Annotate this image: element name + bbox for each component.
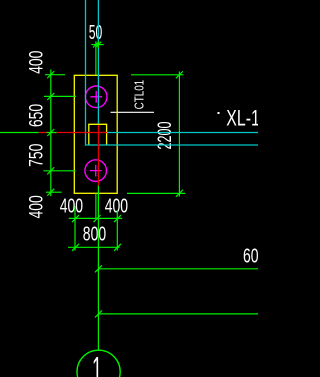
wire: cyan axis upper vertical	[97, 0, 99, 124]
wire: red axis vertical segment	[97, 125, 99, 186]
tick marks left chain	[47, 71, 54, 78]
lower dimension closing line	[68, 244, 121, 251]
extension line at pier top	[45, 74, 65, 76]
svg-text:XL-1: XL-1	[226, 105, 258, 130]
svg-text:1: 1	[92, 349, 102, 377]
anchor bolt circle bottom (magenta)	[85, 160, 107, 182]
leader line under CTL01	[111, 111, 155, 113]
bottom dimension row 400|400	[75, 193, 117, 250]
ticks 2200	[176, 71, 183, 78]
wire: red beam centerline horizontal	[39, 132, 107, 134]
bolt cross top	[90, 91, 102, 103]
dim text 650 (vertical)	[27, 104, 48, 127]
dim text 400 (top, vertical)	[27, 51, 48, 74]
left dimension chain line	[0, 70, 76, 197]
svg-text:400: 400	[60, 196, 83, 218]
dimension 50 line	[91, 41, 103, 75]
bolt cross bottom	[90, 165, 102, 177]
dim text 2200 (vertical)	[155, 122, 176, 150]
axis bubble	[77, 350, 120, 377]
label CTL01 (vertical)	[132, 80, 146, 110]
dim text 400 (bottom, vertical)	[27, 195, 48, 218]
right dimension 2200	[127, 71, 185, 197]
wire: cyan horizontal beam line right	[107, 132, 258, 134]
svg-text:750: 750	[27, 144, 48, 167]
extension at pier top right	[131, 74, 184, 76]
wire: green axis line lower (to bubble)	[97, 186, 99, 351]
pier outline (yellow rectangle)	[74, 75, 117, 193]
extension at pier bottom right	[127, 192, 185, 194]
svg-text:800: 800	[83, 223, 106, 245]
anchor bolt circle top (magenta)	[85, 86, 107, 108]
svg-text:CTL01: CTL01	[132, 80, 146, 110]
extension line at top bolt	[44, 95, 76, 97]
svg-text:400: 400	[27, 51, 48, 74]
svg-text:400: 400	[27, 195, 48, 218]
dim text 750 (vertical)	[27, 144, 48, 167]
svg-text:50: 50	[89, 22, 103, 44]
long beam line 2 right	[95, 310, 258, 317]
svg-text:600: 600	[243, 246, 258, 268]
svg-text:650: 650	[27, 104, 48, 127]
beam seat (small yellow rectangle, open bottom)	[89, 124, 107, 145]
extension line at bottom bolt	[44, 170, 76, 172]
wire: cyan wall line left vertical + turn right	[86, 0, 259, 145]
dimension row 800	[69, 215, 122, 222]
stray dot	[218, 112, 220, 114]
svg-text:400: 400	[105, 196, 128, 218]
extension line at pier bottom	[46, 191, 62, 193]
extension line at beam centerline	[0, 132, 39, 134]
long beam line 1 right	[95, 265, 258, 272]
